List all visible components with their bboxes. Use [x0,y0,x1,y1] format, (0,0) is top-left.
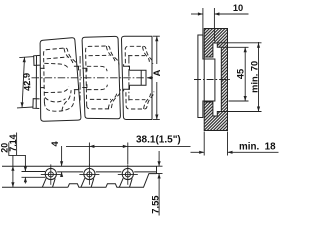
svg-text:10: 10 [233,3,243,13]
svg-text:min. 70: min. 70 [249,61,259,93]
svg-text:4: 4 [50,140,60,146]
svg-text:min. 18: min. 18 [239,141,276,152]
svg-text:7.55: 7.55 [149,195,160,213]
svg-text:7.14: 7.14 [8,134,18,151]
svg-text:42.9: 42.9 [22,73,33,92]
svg-text:45: 45 [236,69,246,79]
svg-text:A: A [152,69,162,76]
svg-text:38.1(1.5"): 38.1(1.5") [136,134,181,145]
